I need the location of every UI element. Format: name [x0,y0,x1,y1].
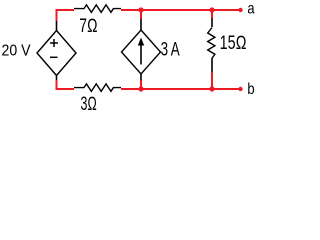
wire left branch lower lead (black part) [56,76,58,81]
svg-text:7Ω: 7Ω [79,16,97,37]
voltage source plus sign [50,39,58,47]
wire 15-ohm lower lead (black) [211,58,213,72]
wire left branch lower (red part) [56,80,58,90]
wire current-source lower stub (red) [140,80,142,90]
svg-text:15Ω: 15Ω [220,33,247,54]
svg-text:20 V: 20 V [2,42,31,59]
voltage source V1 20V diamond [37,31,76,76]
junction node bottom at 15-ohm [209,86,214,91]
wire current-source lower lead (black) [140,74,142,80]
wire 15-ohm upper lead (black) [211,18,213,27]
svg-text:3 A: 3 A [161,40,180,61]
wire top-left horizontal (node from source to 7-ohm) [56,9,75,11]
wire bottom-left horizontal (source to 3-ohm) [56,88,75,90]
wire left branch upper (red part) [56,9,58,21]
junction node top at 15-ohm [209,7,214,12]
wire 15-ohm lower stub (red) [211,72,213,90]
resistor R3 15-ohm (right, vertical) [208,28,215,59]
current source I1 3A diamond [122,30,161,74]
terminal node b dot [238,87,242,91]
wire left branch upper lead (black part) [56,21,58,31]
wire bottom-right horizontal (3-ohm to node b) [121,88,241,90]
wire current-source upper stub (red) [140,9,142,19]
junction node top at current source [138,7,143,12]
wire top-right horizontal (7-ohm to node a) [121,9,241,11]
svg-text:b: b [247,81,254,98]
voltage source minus sign [50,56,58,58]
svg-text:a: a [247,1,254,18]
resistor R1 7-ohm (top) [74,5,121,12]
svg-text:3Ω: 3Ω [81,94,97,112]
current source arrow [140,44,142,65]
wire current-source upper lead (black) [140,19,142,30]
wire 15-ohm upper stub (red) [211,9,213,18]
resistor R2 3-ohm (bottom) [74,84,121,91]
terminal node a dot [238,8,242,12]
junction node bottom at current source [138,86,143,91]
